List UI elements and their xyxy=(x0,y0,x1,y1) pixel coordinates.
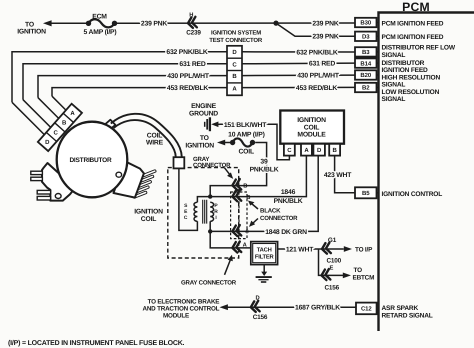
svg-text:239 PNK: 239 PNK xyxy=(141,21,167,28)
svg-text:430 PPL/WHT: 430 PPL/WHT xyxy=(167,73,210,80)
connector chevron 1846 (black, pin B) xyxy=(232,190,242,202)
svg-text:FILTER: FILTER xyxy=(255,255,275,261)
svg-text:HIGH RESOLUTION: HIGH RESOLUTION xyxy=(382,74,441,81)
tach filter module xyxy=(251,242,278,265)
svg-text:5 AMP (I/P): 5 AMP (I/P) xyxy=(84,29,117,36)
svg-text:631 RED: 631 RED xyxy=(309,61,335,68)
svg-text:B5: B5 xyxy=(362,190,370,197)
svg-text:TO I/P: TO I/P xyxy=(355,247,373,254)
distributor body bolt hole xyxy=(116,172,122,177)
svg-text:B20: B20 xyxy=(360,72,371,79)
primary winding xyxy=(210,202,213,221)
ignition coil HV tower xyxy=(174,157,185,168)
svg-text:SIGNAL: SIGNAL xyxy=(382,82,406,89)
svg-text:D: D xyxy=(256,295,260,301)
svg-text:PCM: PCM xyxy=(402,0,430,14)
terminal B3 xyxy=(377,51,379,53)
wire 423 WHT ICM B to PCM B5 xyxy=(335,156,355,193)
svg-text:DISTRIBUTOR REF LOW: DISTRIBUTOR REF LOW xyxy=(382,45,456,52)
svg-text:C100: C100 xyxy=(327,257,342,264)
terminal B5 ignition control xyxy=(377,192,379,194)
distributor comb connector teeth xyxy=(134,171,154,197)
arrow to electronic brake and traction control module xyxy=(220,304,228,310)
terminal B2 xyxy=(377,87,379,89)
svg-text:GROUND: GROUND xyxy=(189,110,218,117)
terminal B20 xyxy=(377,74,379,76)
svg-text:1687 GRY/BLK: 1687 GRY/BLK xyxy=(295,305,340,312)
svg-text:GRAY CONNECTOR: GRAY CONNECTOR xyxy=(181,279,237,286)
svg-text:ENGINE: ENGINE xyxy=(191,103,217,110)
connector ignition system test connector (pins D C B A) xyxy=(227,46,242,96)
svg-text:39: 39 xyxy=(260,159,268,166)
terminal B30 xyxy=(377,22,379,24)
ICM terminal C xyxy=(284,144,295,156)
distributor left flange xyxy=(42,163,75,201)
svg-text:DISTRIBUTOR: DISTRIBUTOR xyxy=(69,157,112,164)
svg-text:TACH: TACH xyxy=(257,246,272,253)
svg-text:C: C xyxy=(54,129,59,136)
distributor body circle xyxy=(57,122,128,198)
svg-text:453 RED/BLK: 453 RED/BLK xyxy=(167,85,209,92)
svg-text:IGNITION CONTROL: IGNITION CONTROL xyxy=(382,191,443,198)
svg-text:239 PNK: 239 PNK xyxy=(312,34,338,41)
connector chevron C156 pin D xyxy=(250,301,260,313)
svg-text:LOW RESOLUTION: LOW RESOLUTION xyxy=(382,89,440,96)
svg-text:PCM IGNITION FEED: PCM IGNITION FEED xyxy=(382,34,444,41)
svg-text:(I/P) = LOCATED IN INSTRUMENT: (I/P) = LOCATED IN INSTRUMENT PANEL FUSE… xyxy=(8,339,185,347)
terminal B14 xyxy=(377,62,379,64)
arrow to I/P xyxy=(344,246,352,252)
wire 121 WHT tach filter to G1 connector xyxy=(278,248,344,250)
distributor left flange pins xyxy=(31,171,43,174)
svg-text:SIGNAL: SIGNAL xyxy=(382,52,406,59)
junction node coil feed xyxy=(208,194,212,198)
wire 631 RED row (test connector C to PCM B14) xyxy=(23,63,355,100)
svg-text:IGNITION: IGNITION xyxy=(134,209,163,216)
distributor flange bolt hole xyxy=(55,194,61,199)
junction node coil driver xyxy=(208,229,212,233)
black connector dashed box xyxy=(231,192,247,239)
ignition coil dashed outline (gray connector) xyxy=(168,168,239,258)
distributor cap tower nub xyxy=(105,120,116,130)
wire 1687 GRY/BLK C156 to PCM C12 xyxy=(228,306,357,308)
svg-text:TO: TO xyxy=(354,267,363,274)
terminal D3 xyxy=(377,35,379,37)
connector C239 H xyxy=(187,17,197,29)
svg-text:SIGNAL: SIGNAL xyxy=(382,96,406,103)
svg-text:423 WHT: 423 WHT xyxy=(324,172,352,179)
svg-text:IGNITION SYSTEM: IGNITION SYSTEM xyxy=(211,29,261,36)
connector chevron tach (gray, pin A) xyxy=(232,242,242,254)
connector chevron coil B+ (gray, pin B) xyxy=(232,179,242,191)
wire diagonals into distributor connector xyxy=(12,96,68,136)
svg-text:PNK/BLK: PNK/BLK xyxy=(274,198,303,205)
svg-text:632 PNK/BLK: 632 PNK/BLK xyxy=(166,49,208,56)
connector chevron 1848 (black, pin A) xyxy=(232,225,242,237)
connector chevron C156 (to EBTCM) xyxy=(321,269,331,281)
svg-text:MODULE: MODULE xyxy=(297,132,326,139)
svg-text:B: B xyxy=(246,195,250,201)
distributor bottom-right connector body xyxy=(114,161,144,198)
svg-text:DISTRIBUTOR: DISTRIBUTOR xyxy=(382,60,425,67)
wire 239 PNK branch to PCM D3 xyxy=(276,23,355,36)
svg-text:A: A xyxy=(70,110,75,117)
svg-text:RETARD SIGNAL: RETARD SIGNAL xyxy=(382,313,433,320)
svg-text:B: B xyxy=(243,184,247,190)
svg-text:ASR SPARK: ASR SPARK xyxy=(382,305,419,312)
svg-text:B: B xyxy=(62,120,67,127)
terminal C12 ASR spark retard xyxy=(377,307,379,309)
wire 1846 PNK/BLK ICM A to coil black connector B xyxy=(210,156,306,197)
junction node 239 PNK splice xyxy=(273,21,278,26)
svg-text:H: H xyxy=(189,13,193,19)
coil wire (distributor to ignition coil) xyxy=(111,114,182,157)
svg-text:EBTCM: EBTCM xyxy=(353,275,375,282)
svg-text:MODULE: MODULE xyxy=(163,312,189,319)
svg-text:PCM IGNITION FEED: PCM IGNITION FEED xyxy=(382,20,444,27)
svg-text:C156: C156 xyxy=(253,314,268,321)
wire 1848 DK GRN ICM D to coil black connector A xyxy=(210,156,318,232)
svg-text:IGNITION: IGNITION xyxy=(297,117,326,124)
coil core xyxy=(203,200,207,224)
fuse ECM 5 AMP (I/P) xyxy=(89,19,115,27)
svg-text:ECM: ECM xyxy=(92,14,107,21)
svg-text:1848 DK GRN: 1848 DK GRN xyxy=(265,229,307,236)
arrow to EBTCM xyxy=(343,273,351,279)
connector chevron G1 xyxy=(321,243,331,255)
wire tower lead inside ignition coil xyxy=(179,167,198,230)
svg-text:B14: B14 xyxy=(360,60,371,67)
svg-text:631 RED: 631 RED xyxy=(179,61,205,68)
PCM module outline xyxy=(379,13,474,332)
svg-text:COIL: COIL xyxy=(141,216,156,223)
svg-text:B2: B2 xyxy=(362,85,370,92)
svg-text:10 AMP (I/P): 10 AMP (I/P) xyxy=(228,132,265,139)
svg-text:CONNECTOR: CONNECTOR xyxy=(260,215,298,222)
svg-text:G1: G1 xyxy=(328,237,337,244)
svg-text:D: D xyxy=(45,139,50,146)
svg-text:PNK/BLK: PNK/BLK xyxy=(250,166,279,173)
wire coil tach lead to tach filter xyxy=(210,231,251,248)
svg-text:COIL: COIL xyxy=(304,124,319,131)
ignition coil module U1 xyxy=(280,111,344,144)
svg-text:TO: TO xyxy=(200,135,209,142)
svg-text:COIL: COIL xyxy=(147,132,162,139)
ICM terminal A xyxy=(301,144,312,156)
ICM terminal D xyxy=(313,144,325,156)
ground below tach filter xyxy=(263,265,265,273)
svg-text:B30: B30 xyxy=(360,20,371,27)
svg-text:C156: C156 xyxy=(325,284,340,291)
svg-text:IGNITION: IGNITION xyxy=(17,29,46,36)
svg-text:IGNITION: IGNITION xyxy=(185,142,214,149)
wire secondary winding top lead xyxy=(197,197,210,203)
svg-text:B3: B3 xyxy=(362,49,370,56)
svg-text:632 PNK/BLK: 632 PNK/BLK xyxy=(296,49,338,56)
wire 151 BLK/WHT engine ground to ICM terminal C xyxy=(220,124,289,159)
wire branch to C156 EBTCM xyxy=(319,249,344,275)
wire 39 PNK/BLK coil fuse to ignition coil B+ chevron xyxy=(210,143,266,197)
svg-text:C12: C12 xyxy=(361,306,372,313)
svg-text:IGNITION FEED: IGNITION FEED xyxy=(382,67,429,74)
svg-text:D3: D3 xyxy=(362,34,370,41)
svg-text:121 WHT: 121 WHT xyxy=(286,246,314,253)
svg-text:WIRE: WIRE xyxy=(146,140,164,147)
wire 453 RED/BLK row (test connector A to PCM B2) xyxy=(52,87,355,96)
svg-text:C239: C239 xyxy=(186,29,201,36)
svg-text:239 PNK: 239 PNK xyxy=(312,21,338,28)
wire 430 PPL/WHT row (test connector B to PCM B20) xyxy=(38,75,355,98)
svg-text:COIL: COIL xyxy=(238,148,253,155)
wire primary winding bottom lead xyxy=(209,221,211,231)
wire 239 PNK from ECM fuse to C239 and PCM B30 xyxy=(50,22,87,24)
distributor plug connector (pins D C B A) xyxy=(38,104,82,151)
svg-text:453 RED/BLK: 453 RED/BLK xyxy=(296,85,338,92)
svg-text:TEST CONNECTOR: TEST CONNECTOR xyxy=(209,37,263,44)
arrow to ignition (top left) xyxy=(43,20,52,26)
svg-text:TO: TO xyxy=(25,21,34,28)
svg-text:1846: 1846 xyxy=(281,189,296,196)
ICM terminal B xyxy=(329,144,340,156)
svg-text:151 BLK/WHT: 151 BLK/WHT xyxy=(224,122,267,129)
fuse COIL 10 AMP (I/P) xyxy=(233,138,253,146)
svg-text:TO ELECTRONIC BRAKE: TO ELECTRONIC BRAKE xyxy=(148,298,220,305)
svg-text:BLACK: BLACK xyxy=(260,208,281,215)
svg-text:AND TRACTION CONTROL: AND TRACTION CONTROL xyxy=(142,305,219,312)
secondary winding xyxy=(194,202,197,221)
svg-text:E: E xyxy=(330,265,334,271)
wire 632 PNK/BLK row (test connector D to PCM B3) xyxy=(12,52,355,103)
svg-text:430 PPL/WHT: 430 PPL/WHT xyxy=(297,73,340,80)
